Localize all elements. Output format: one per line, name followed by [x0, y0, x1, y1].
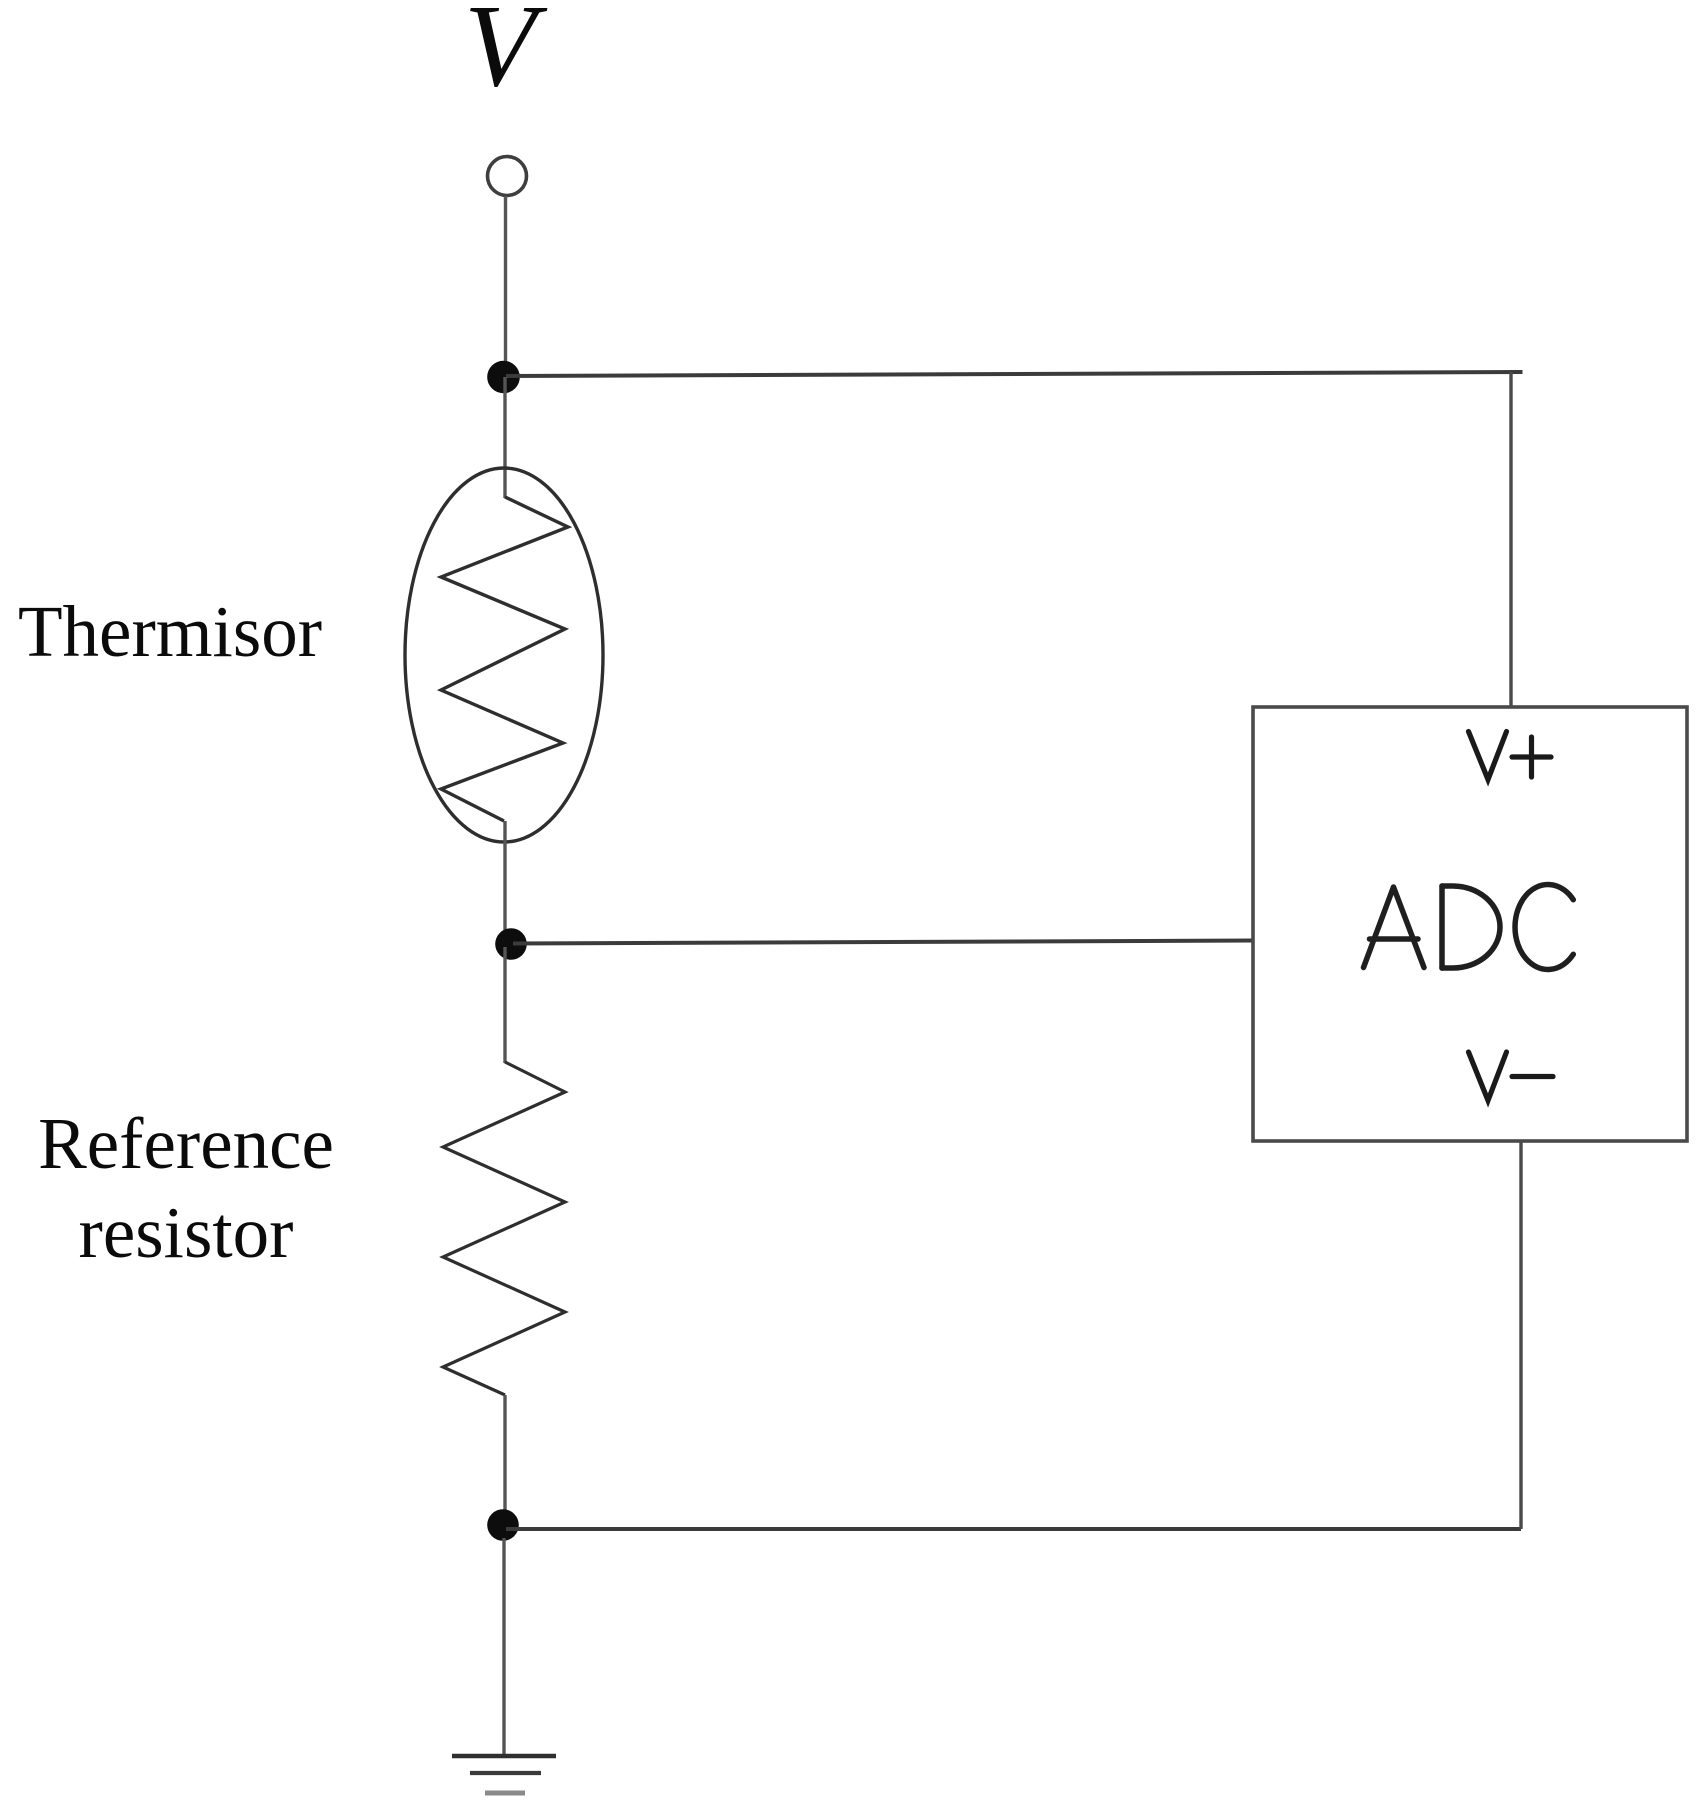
wire node A to ADC V+ (top horizontal) [506, 372, 1523, 376]
wire right vertical down to ADC V+ pin [1509, 372, 1512, 708]
wire right vertical up to ADC V- pin [1519, 1140, 1522, 1529]
thermistor zigzag element [441, 497, 568, 821]
wire node C to ground [502, 1538, 505, 1755]
wire resistor to node C [503, 1395, 506, 1512]
label ADC [1364, 885, 1574, 970]
wire node B to ADC left [513, 941, 1253, 944]
node B junction dot [495, 928, 527, 960]
wire node A into thermistor [503, 377, 506, 498]
op-amp ADC box U1 [1253, 707, 1687, 1141]
resistor reference zigzag [443, 1062, 565, 1395]
wire V terminal to node A [504, 196, 507, 370]
pin label V- [1469, 1052, 1554, 1101]
node A junction dot [487, 361, 520, 394]
terminal V open circle [488, 157, 527, 196]
svg-text:Reference: Reference [38, 1103, 334, 1184]
node C junction dot [487, 1509, 519, 1541]
wire node C to ADC V- (bottom horizontal) [506, 1527, 1521, 1531]
svg-text:Thermisor: Thermisor [18, 591, 322, 672]
svg-text:resistor: resistor [79, 1192, 294, 1273]
svg-text:V: V [464, 0, 548, 111]
ground symbol [452, 1756, 556, 1793]
pin label V+ [1469, 732, 1552, 780]
wire node B into reference resistor [503, 947, 506, 1063]
wire thermistor to node B [503, 821, 506, 932]
thermistor body ellipse [405, 468, 603, 842]
